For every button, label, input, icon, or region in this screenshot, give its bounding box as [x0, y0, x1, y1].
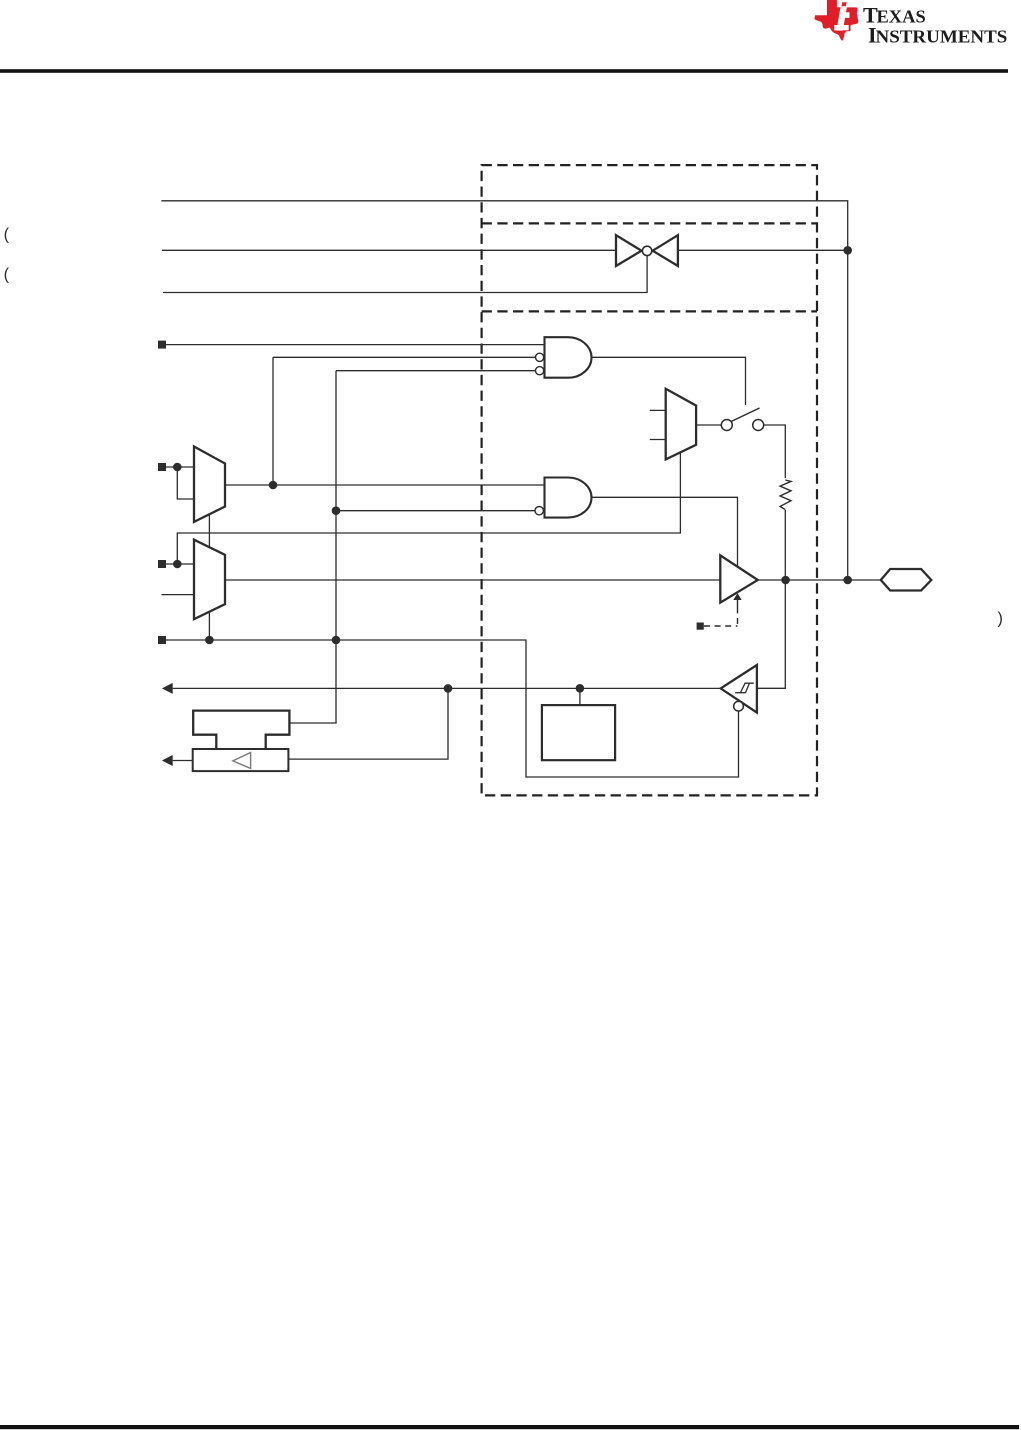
wire W24 G2 output to driver enable: [592, 497, 738, 566]
wire W23 G2 inverted input: [336, 510, 535, 512]
arrow A2 to module: [162, 683, 173, 694]
wire W27 Schmitt output to module: [173, 687, 721, 689]
wire W2b analog switch T1 to pad net: [678, 249, 848, 251]
input buffer box U6: [193, 749, 289, 771]
wire W15 mux M2 stub input: [162, 594, 195, 596]
wire W5 mux M1 output to G1 inverted input: [273, 357, 536, 485]
driver enable dashed wire: [704, 612, 738, 626]
junction J4: [332, 636, 341, 645]
switch SW1 contact circle B: [753, 420, 764, 431]
wire W20 mux M3 output to switch: [696, 424, 721, 426]
wire W13 select net to mux M3: [177, 452, 680, 564]
U6 buffer triangle: [233, 753, 251, 769]
pad hexagon P1: [881, 569, 932, 591]
mux M1: [194, 447, 225, 522]
wire W29 branch to EN box U4: [579, 688, 581, 705]
arrow A3 to module: [162, 755, 173, 766]
wire W18 direction net to Schmitt enable bubble: [166, 640, 739, 777]
wire W10 mux M1 inputs: [166, 467, 194, 499]
driver enable arrowhead: [733, 593, 741, 600]
G2 input bubble: [535, 507, 543, 515]
wire W12 select link M1-M2: [208, 514, 210, 547]
U3 enable bubble: [734, 701, 744, 711]
wire W3 T1 gate control: [163, 256, 647, 293]
terminal square S1: [158, 341, 166, 349]
driver enable dashed arrow square terminal S5: [697, 623, 704, 630]
wire W8 switch to resistor R1: [764, 425, 786, 478]
dashed divider net 2: [482, 310, 817, 312]
wire W14 mux M2 input: [166, 563, 194, 565]
wire W9 resistor R1 to pad net and Schmitt input: [757, 510, 785, 688]
svg-text:): ): [998, 610, 1003, 628]
NAND gate G1 body: [545, 337, 592, 378]
bus keeper U5 body: [193, 711, 289, 749]
junction J7: [269, 481, 278, 490]
junction J1: [843, 246, 852, 255]
junction J12: [576, 684, 585, 693]
junction J8: [173, 560, 182, 569]
G1 input bubble pin 2: [536, 353, 544, 361]
junction J9: [205, 636, 214, 645]
wire W4 to NAND G1 top input: [166, 344, 545, 346]
header rule: [0, 69, 1008, 73]
wire W11 mux M1 output to G2 input: [225, 484, 545, 486]
wire W1 top horizontal to pad net: [161, 201, 847, 580]
wire W7 G1 output to switch control: [592, 357, 746, 405]
EN box U4: [542, 705, 615, 760]
G1 input bubble pin 3: [536, 367, 544, 375]
junction J3: [332, 506, 341, 515]
U3 hysteresis symbol: [735, 683, 754, 693]
wire W28 from-module branch to input buffer U6: [288, 688, 448, 759]
TI logo: [814, 0, 1007, 47]
wire W16 mux M2 output to driver U2: [225, 579, 720, 581]
svg-text:EXAS: EXAS: [877, 7, 926, 27]
wire W30 input buffer U6 output: [173, 760, 193, 762]
dashed module boundary box: [482, 165, 817, 795]
junction J11: [444, 684, 453, 693]
junction J6: [173, 463, 182, 472]
terminal square S4: [158, 636, 166, 644]
wire W2 into analog switch T1: [162, 249, 615, 251]
wire W19 mux M3 input stubs: [650, 410, 666, 439]
NAND gate G2 body: [545, 478, 592, 518]
svg-text:NSTRUMENTS: NSTRUMENTS: [876, 26, 1008, 46]
terminal square S2: [158, 463, 166, 471]
resistor R1 zigzag: [780, 480, 791, 510]
terminal square S3: [158, 560, 166, 568]
dashed divider net 1: [482, 222, 817, 224]
analog switch T1 left triangle: [616, 235, 642, 266]
svg-text:(: (: [4, 266, 10, 284]
wire W31 bus keeper U5 to vertical bus: [289, 722, 336, 724]
wire W17 select link M2 to direction net: [208, 612, 210, 640]
switch SW1 lever: [729, 408, 760, 423]
analog switch T1 right triangle: [653, 235, 678, 266]
output driver buffer U2: [720, 555, 758, 602]
wire W25 driver U2 output to pad: [758, 579, 881, 581]
mux M3: [666, 389, 696, 460]
driver enable arrow shaft: [737, 599, 739, 612]
analog switch T1 control bubble: [642, 246, 651, 255]
junction J5: [781, 576, 790, 585]
junction J2: [843, 576, 852, 585]
svg-text:(: (: [4, 225, 10, 243]
switch SW1 contact circle A: [721, 420, 732, 431]
wire W6 vertical bus to G1 input and keeper: [336, 371, 536, 723]
Schmitt trigger U3 body: [721, 665, 757, 713]
mux M2: [194, 540, 225, 620]
footer rule: [0, 1425, 1019, 1429]
